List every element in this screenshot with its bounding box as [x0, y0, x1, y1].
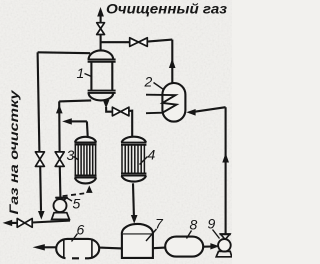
wire: exchanger4 to vessel7: [132, 183, 135, 216]
wire: vessel6 to vessel7: [99, 247, 122, 250]
label 8 tick: [187, 231, 192, 239]
U4 top dome: [122, 137, 146, 143]
label 1 tick: [85, 74, 92, 77]
column1 body: [91, 62, 112, 91]
pump P5 base: [52, 213, 70, 220]
valve V1 on vessel1 top line: [97, 23, 105, 35]
label 7 tick: [146, 229, 157, 241]
svg-text:Очищенный газ: Очищенный газ: [106, 2, 227, 17]
arrow up: on right riser: [222, 153, 229, 163]
arrow up: into exchanger3 bottom: [86, 185, 93, 193]
label 6 tick: [72, 234, 78, 242]
wire: bottom-left supply line: [12, 221, 70, 223]
U3 tubes: [75, 145, 95, 176]
wire: left riser1: [38, 52, 41, 211]
wire: vessel6 outlet left: [44, 246, 56, 248]
svg-text:8: 8: [190, 217, 198, 233]
U3 tube sheets top: [75, 143, 97, 145]
arrow left: vessel6 outlet: [33, 244, 45, 250]
wire: exchanger3 top to riser2: [71, 120, 87, 122]
arrow down: riser1 bottom: [38, 211, 45, 220]
heat exchanger U3: [75, 137, 97, 184]
vessel V7 body: [122, 233, 153, 258]
heat exchanger U2 shell: [162, 83, 185, 122]
wire: right inlet into exchanger2: [195, 107, 226, 112]
arrow left: into riser2: [62, 118, 72, 124]
svg-text:6: 6: [77, 222, 85, 238]
U3 top dome: [75, 137, 96, 143]
wire: right riser from pump9: [225, 107, 227, 234]
pump P9 body: [218, 239, 231, 252]
valve V2 horizontal on top branch: [130, 38, 148, 47]
pump P9 base: [216, 251, 232, 256]
label 2 tick: [154, 83, 164, 90]
valve V6h after vessel1 bottom: [112, 107, 128, 116]
label 3 tick: [74, 157, 79, 161]
arrow down: vessel1 bottom outlet: [103, 100, 110, 109]
wire: vessel7 to vessel8: [153, 247, 166, 250]
U4 tubes: [122, 145, 144, 173]
wire: down to exchanger2 top: [171, 40, 173, 84]
U3 tube sheets bottom: [75, 175, 97, 177]
U4 bottom dome: [122, 176, 146, 182]
svg-text:2: 2: [144, 74, 153, 90]
column1 top dome: [89, 50, 114, 59]
wire: dashed regeneration line to exchanger3: [63, 193, 85, 196]
vessel V6 flange lines: [64, 240, 92, 258]
svg-text:9: 9: [208, 216, 216, 232]
U3 bottom dome: [75, 178, 96, 184]
valve V3 on bottom-left line: [17, 219, 32, 228]
vessel V6 shell: [56, 239, 99, 258]
arrow up: riser2 top: [56, 105, 63, 114]
pump P9 top bar: [220, 233, 231, 235]
svg-text:Газ на очистку: Газ на очистку: [7, 89, 21, 215]
wire: top branch to valve: [101, 40, 173, 43]
U4 tube sheets bottom: [121, 173, 146, 175]
label 4 tick: [140, 157, 148, 165]
svg-text:3: 3: [67, 147, 75, 163]
valve V4 on riser1: [35, 152, 44, 167]
vessel V6 bottom edge break gaps: [66, 256, 73, 260]
arrow down: into vessel7: [131, 215, 138, 224]
svg-text:4: 4: [148, 147, 156, 163]
wire: vessel1 top outlet stub: [100, 16, 102, 50]
absorber column 1: [88, 50, 116, 100]
vessel V8 shell: [165, 237, 203, 257]
heat exchanger U4: [121, 137, 146, 182]
pump P5 funnel: [57, 198, 67, 203]
wire: vessel1 bottom outlet: [106, 107, 113, 112]
heat exchanger U2 coil: [146, 95, 177, 114]
wire: left riser2: [59, 101, 60, 197]
wire: exchanger3 top stub: [86, 121, 89, 136]
column1 bottom flanges: [88, 91, 116, 93]
wire: valve to exchanger4 top: [129, 111, 132, 137]
arrow up: into top branch from exchanger2: [169, 59, 176, 69]
pump P5 top bar: [55, 197, 67, 199]
vessel V7 dome: [122, 224, 153, 233]
label 5 tick: [66, 198, 72, 202]
pump P9 funnel: [221, 234, 230, 239]
label 9 tick: [213, 230, 220, 239]
column1 top flanges: [88, 60, 116, 62]
arrow left: into exchanger2 right side: [186, 109, 195, 116]
arrow up: purified gas outlet: [97, 7, 104, 17]
arrow right: into pump9: [210, 243, 219, 249]
valve V5 on riser2: [55, 152, 64, 167]
arrow left: bottom-left line end: [3, 220, 13, 226]
wire: riser2 top to vessel1 bottom dome: [59, 100, 91, 101]
pump P5 body: [54, 199, 67, 212]
svg-text:5: 5: [73, 196, 81, 212]
U4 tube sheets top: [121, 143, 146, 145]
wire: riser1 top to vessel1 dome: [38, 51, 91, 54]
svg-text:1: 1: [77, 65, 85, 81]
wire: vessel8 to pump9: [203, 245, 211, 247]
column1 bottom dome: [89, 93, 114, 100]
